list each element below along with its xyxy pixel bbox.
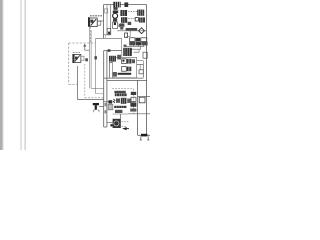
- wire connector box bottom to bus: [104, 35, 106, 39]
- spool A2: [127, 59, 131, 64]
- valve V3: [121, 17, 127, 23]
- filter F1: [93, 103, 99, 112]
- tick left: [140, 136, 142, 140]
- wire bus y38: [96, 37, 122, 39]
- wire bottom link y78: [104, 77, 144, 79]
- valve body bar: [118, 73, 132, 75]
- pilot tap on line: [95, 56, 97, 59]
- port marks above motor: [124, 45, 127, 47]
- left valve unit bar: [88, 17, 90, 27]
- page scan edge band: [0, 0, 3, 150]
- left valve unit body: [90, 18, 98, 27]
- wire dashed mid drop: [96, 93, 104, 95]
- relief valve V2: [137, 10, 144, 16]
- gear pump P2: [113, 119, 121, 128]
- label line left valve: [90, 15, 102, 17]
- swing motor M1: [123, 48, 132, 56]
- wire cross y113: [113, 113, 129, 115]
- dashed enclosure: [69, 38, 96, 93]
- main valve block housing: [112, 89, 133, 114]
- tick right: [147, 136, 149, 140]
- junction fleck: [108, 49, 111, 52]
- wire bottom rail: [138, 134, 150, 136]
- suction strainer marks: [108, 100, 113, 110]
- spool B2: [127, 67, 131, 72]
- pilot box right: [139, 70, 143, 74]
- page fold line right: [25, 0, 26, 150]
- wire bottom link y80: [107, 79, 147, 81]
- valve block mid spring: [113, 98, 131, 104]
- wire small stub: [139, 65, 141, 70]
- pump enclosure box: [103, 5, 105, 39]
- valve block top spool: [114, 91, 126, 97]
- label line for V3: [128, 18, 134, 20]
- directional valve DV1: [109, 55, 121, 62]
- wire short L: [126, 31, 130, 36]
- inner pilot box: [105, 9, 108, 13]
- wire sv1 down long: [78, 66, 104, 100]
- wire tank to pump: [107, 122, 113, 124]
- check valve box: [135, 18, 138, 21]
- valve bank row 2: [129, 42, 147, 46]
- label band on mid bus: [126, 28, 138, 30]
- valve block lower bar: [114, 106, 126, 113]
- label line pump a: [122, 121, 129, 123]
- wire cross y96: [138, 96, 150, 98]
- bottom dark bar: [141, 134, 147, 137]
- wire pump top link: [120, 114, 122, 119]
- wire valve to enclosure: [97, 20, 103, 22]
- wire top bus: [104, 4, 147, 6]
- relief valve V1: [120, 10, 127, 16]
- control valve housing: [112, 57, 136, 77]
- wire bus y50: [104, 50, 122, 52]
- tank column: [104, 51, 107, 127]
- solenoid valve SV1: [72, 54, 84, 63]
- spool A3: [132, 59, 135, 63]
- wire y60 link: [137, 61, 144, 65]
- junction marks: [85, 58, 88, 61]
- wire left pair vertical b: [91, 30, 104, 88]
- pilot open box right: [139, 97, 145, 103]
- wire left pair vertical a: [89, 27, 91, 88]
- right block left column parts: [130, 92, 136, 112]
- wire filter to tank: [99, 106, 104, 108]
- flow arrow mark: [123, 127, 129, 130]
- wire valve block left arrow: [104, 101, 113, 104]
- pilot valve small box: [113, 22, 118, 29]
- wire mid bus right: [117, 30, 146, 32]
- orifice diamond: [139, 28, 145, 34]
- pump P1: [113, 7, 119, 22]
- solenoid valve SV1 label: [73, 52, 80, 54]
- page fold line left: [21, 0, 22, 150]
- drain plug dot: [110, 124, 112, 126]
- wire right main vertical: [146, 5, 148, 136]
- spring valve cluster: [119, 22, 132, 30]
- label line pump b: [122, 125, 127, 127]
- dashed drop from valve: [89, 27, 91, 43]
- motor block on top bus: [113, 2, 128, 8]
- wire right vertical x137: [137, 80, 139, 135]
- spool B1: [122, 67, 127, 72]
- wire bank drop lines: [125, 45, 144, 52]
- spool A1: [122, 59, 127, 64]
- valve bank row 1: [130, 38, 147, 42]
- wire sv drop to tank: [85, 64, 104, 98]
- port box right of valve: [97, 21, 100, 25]
- wire sv1 up link: [84, 44, 89, 50]
- label line for V1: [128, 11, 137, 13]
- drain box: [143, 52, 147, 58]
- wire riser to motor: [121, 38, 123, 57]
- wire valve left drop: [110, 62, 113, 78]
- regulator box U2: [107, 29, 111, 35]
- end cap marks: [113, 72, 117, 77]
- wire right of housing: [137, 65, 144, 78]
- accumulator small box: [125, 33, 128, 37]
